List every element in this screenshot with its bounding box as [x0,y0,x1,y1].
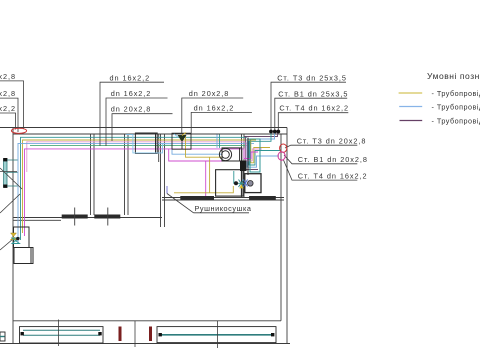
riser dots [269,130,280,134]
pipe loop blue [247,132,279,167]
pipe yellow horizontal [23,140,257,233]
axis tick 3 [216,321,218,348]
pipe yellow vertical [209,157,211,192]
svg-text:Ст. Т4 dn 16x2,2: Ст. Т4 dn 16x2,2 [298,172,368,181]
svg-text:Ст. В1 dn 25x3,5: Ст. В1 dn 25x3,5 [278,90,348,99]
riser leaders group mid-1 [100,82,173,146]
pipe pink horizontal [27,142,246,172]
svg-text:x2,2: x2,2 [0,104,16,113]
axis tick 1 [58,320,60,347]
svg-text:Ст. Т3 dn 20x2,8: Ст. Т3 dn 20x2,8 [297,137,367,146]
partition A [90,134,92,215]
wall bottom outer [0,343,290,345]
wall right inner [280,134,282,321]
pipe loop yellow [251,140,270,163]
pipe magenta vertical to wall [205,161,207,196]
wall left [12,128,14,344]
svg-text:Рушникосушка: Рушникосушка [195,204,252,213]
pipe loop purple inner [246,137,259,170]
svg-text:Ст. Т3 dn 25x3,5: Ст. Т3 dn 25x3,5 [277,74,347,83]
towel dryer teal box [250,139,260,172]
legend line blue [399,106,422,108]
kitchen box 1 [14,227,30,248]
towel dryer label [167,194,252,214]
window radiator 1 [20,327,104,343]
pipe loop purple [245,132,278,137]
wall top inner [13,133,287,135]
svg-text:dn 16x2,2: dn 16x2,2 [194,104,235,113]
svg-text:dn 16x2,2: dn 16x2,2 [111,89,152,98]
valve dot left [16,237,19,240]
pipe blue branch [172,143,222,154]
axis tick 2 [134,321,136,347]
svg-text:x2,8: x2,8 [0,72,16,81]
pipe green horizontal [30,144,247,146]
svg-text:Ст. Т4 dn 16x2,2: Ст. Т4 dn 16x2,2 [279,104,349,113]
leader diagonal left 3 [0,239,13,250]
pipe yellow along wall to heater [174,186,233,193]
svg-text:Ст. В1 dn 20x2,8: Ст. В1 dn 20x2,8 [298,155,368,164]
pipe blue risers to pump [217,135,220,148]
wall mid-left horizontal [14,217,163,219]
window radiator stub far left [0,332,5,341]
pipe loop pink [246,142,262,161]
stand callout leaders right group 2 [284,145,358,180]
pipe yellow branch down [186,135,223,157]
radiator left [3,158,17,188]
door jamb red 1 [119,327,122,342]
leader diagonal left 1 [0,168,22,189]
wall bottom inner window line [14,320,282,322]
valve teal bowtie [12,238,20,244]
door sill tick 1 [74,208,76,226]
door sill bar 2 [94,215,120,219]
wall right outer [286,128,288,344]
valve cross assembly [233,180,247,188]
door sill tick 2 [107,208,109,226]
pipe loop teal [249,132,280,165]
valve box with triangle [172,133,191,150]
svg-text:dn 20x2,8: dn 20x2,8 [111,105,152,114]
window radiator 2 [157,327,276,343]
magenta circle callout 2 [278,152,285,160]
svg-text:x2,8: x2,8 [0,89,16,98]
wall bathroom left vertical [241,134,243,198]
red circle callout 1 [280,144,287,152]
pipe blue detour around washing machine [126,135,172,153]
svg-text:- Трубопровід холодної: - Трубопровід холодної [432,103,480,112]
valve yellow triangle small [239,184,243,188]
svg-text:- Трубопровід гарячої: - Трубопровід гарячої [432,89,480,98]
red oval callout [11,128,26,133]
riser leaders group right [271,82,348,130]
water heater box [216,170,243,196]
wall top outer [0,127,287,129]
boiler dark box [240,161,247,172]
legend line yellow [399,92,423,94]
wall bath bar 2 [249,196,276,200]
valve yellow bowtie [11,233,17,240]
legend line purple [400,120,423,122]
door sill bar 1 [62,215,88,219]
pipe blue towel dryer connection [166,186,168,194]
valve dot [234,181,238,185]
pipe blue horizontal [18,143,254,243]
dim line left [0,171,17,173]
kitchen box 2 [14,248,33,264]
pipe magenta horizontal [25,149,243,236]
wall bath bar 1 [180,196,214,200]
wall C vertical strip / duct [160,134,162,227]
pump unit [219,148,241,161]
riser leaders group mid-2 [182,98,252,133]
svg-text:Умовні позначення: Умовні позначення [427,71,480,81]
pipe magenta drop to towel dryer [169,149,242,161]
pipe teal drop to valves [233,171,235,183]
partition B [124,134,126,215]
svg-text:- Трубопровід циркуляції: - Трубопровід циркуляції [432,117,480,126]
leader diagonal left 2 [0,194,20,213]
pipe loop magenta [242,149,258,159]
fan unit with circle [245,174,261,193]
svg-text:dn 16x2,2: dn 16x2,2 [110,74,151,83]
washing machine box [135,133,157,153]
riser leaders group left [0,81,24,132]
wall bath horizontal [162,197,284,199]
pipe teal horizontal [21,137,248,240]
door jamb red 2 [149,327,152,342]
svg-text:dn 20x2,8: dn 20x2,8 [189,89,230,98]
